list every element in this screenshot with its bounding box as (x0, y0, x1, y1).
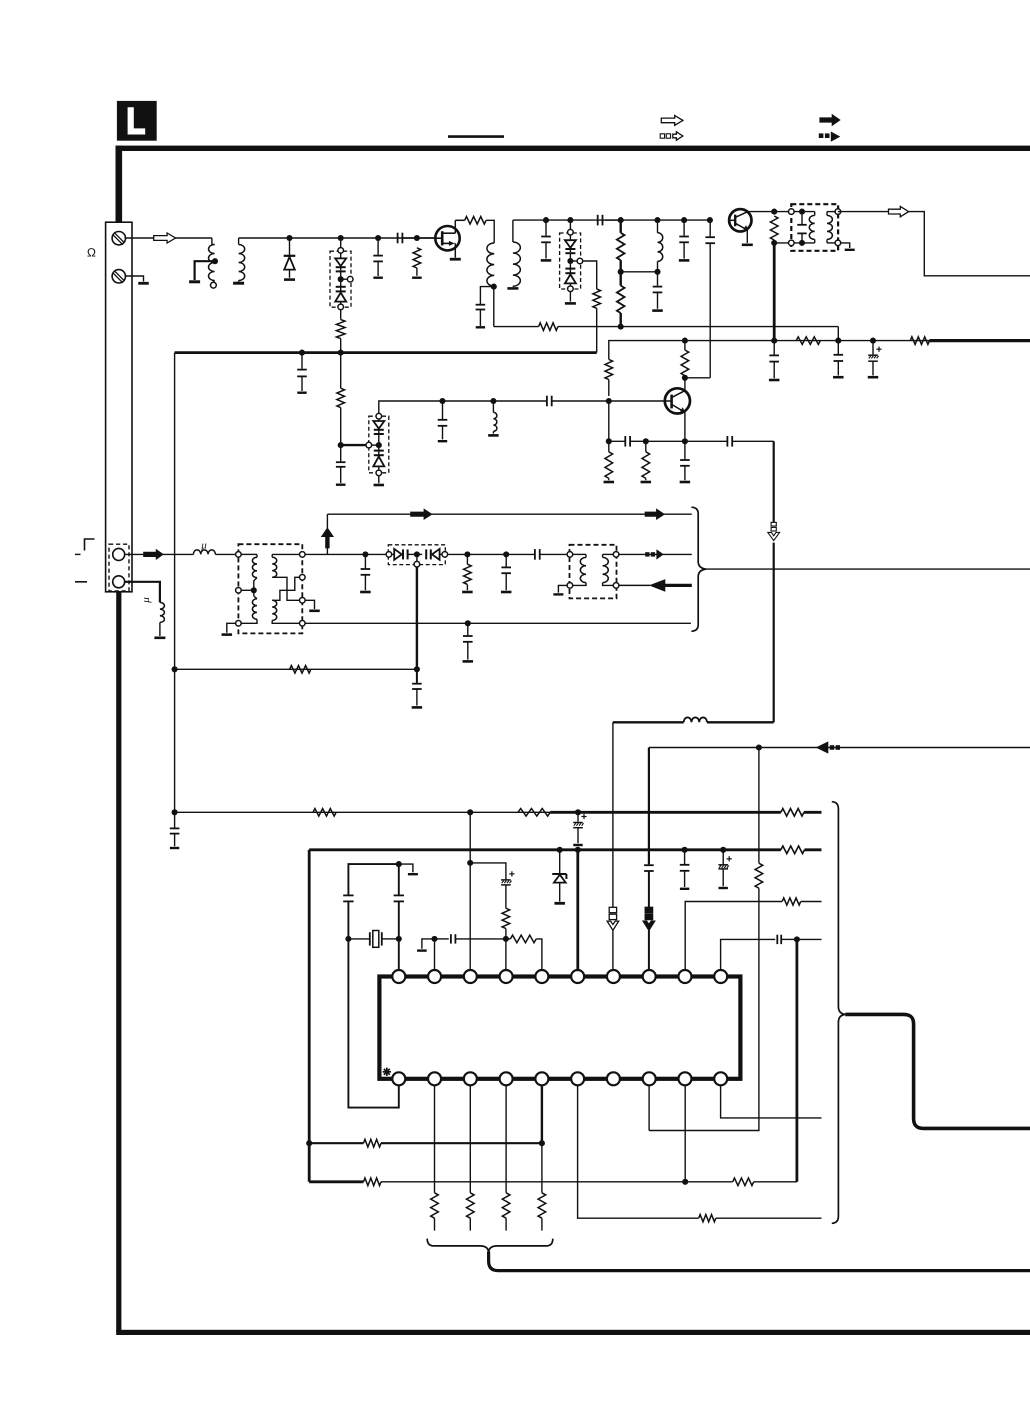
node pin15 leg (539, 1140, 545, 1146)
T3 terminal TL (789, 209, 795, 215)
T4 primary upper coil (241, 553, 257, 555)
wire D2 to R (340, 310, 342, 320)
node rail1 pin3 branch (467, 809, 473, 815)
node zener on rail2 (557, 847, 563, 853)
brace right group (832, 802, 846, 1224)
ground C24 (463, 660, 474, 663)
capacitor C9 (683, 220, 685, 236)
wire pin13 leg (469, 1085, 471, 1193)
resistor R29 (699, 1215, 716, 1222)
T1 primary bottom open end (213, 281, 214, 283)
ground R12 (641, 481, 652, 484)
FM input filled arrow (143, 549, 164, 560)
series capacitor C16 (726, 436, 728, 447)
wire pin3 riser (469, 812, 471, 970)
resistor R5 (617, 233, 625, 260)
wire R12 (645, 441, 647, 452)
ground crystal top (399, 864, 413, 872)
wire FM2 to L5 (125, 582, 160, 603)
wire FM input (125, 553, 194, 555)
resistor R15 (466, 554, 468, 564)
varactor D4 bottom terminal (376, 470, 382, 476)
ground C21 (360, 591, 371, 594)
wire rail end (595, 219, 621, 221)
T3 primary coil (809, 215, 814, 239)
wire pin16 leg (578, 1085, 699, 1218)
ground T3 secondary (841, 243, 850, 248)
node C24 (465, 620, 471, 626)
ground D1 (284, 278, 295, 281)
node crystal ground stub (396, 861, 402, 867)
varactor D2b symbol (340, 282, 342, 287)
wire R10 top (684, 341, 686, 350)
wire pin9 leg (685, 902, 782, 971)
capacitor C20 electrolytic (872, 341, 874, 355)
wire pin1 riser (398, 942, 400, 971)
node C13 on base line (439, 398, 445, 404)
bar C11 (297, 392, 306, 394)
transformer T2 secondary coil (513, 242, 520, 286)
bar C29 (680, 888, 689, 890)
resistor R7 (770, 216, 778, 240)
node cap C3 on rail (375, 235, 381, 241)
series capacitor C15 (624, 436, 626, 447)
pin 15 (535, 1072, 548, 1085)
wire crystal left loop (348, 942, 398, 1108)
wire D4 to osc base line (379, 401, 443, 413)
pin 17 (607, 1072, 620, 1085)
ground C19 (833, 376, 844, 379)
wire pin8 drop 2 (648, 930, 650, 970)
wire collector to feedback cap (685, 377, 710, 379)
wire IC net bottom (309, 1180, 363, 1183)
node supply C18 (771, 338, 777, 344)
T3 tuning capacitor (801, 212, 803, 224)
wire Q3 collector (684, 378, 686, 391)
header filled arrow with squares (819, 133, 824, 138)
ground T4 BL (227, 623, 236, 633)
ground ZD1 (554, 902, 565, 905)
T3 inner top wire (794, 211, 815, 213)
varactor D2 side terminal (343, 278, 347, 280)
wire pin10 leg (721, 939, 776, 970)
series capacitor C7 mixer rail (597, 215, 599, 226)
wire T5 out (619, 553, 692, 555)
diode D1 (289, 238, 291, 255)
transistor Q2 (729, 209, 751, 231)
wire rail to Q1 gate (403, 237, 436, 239)
pin 2 (428, 970, 441, 983)
T4 terminal TL (236, 552, 242, 558)
varactor D4a symbol (378, 419, 380, 421)
wire AFC line from right (649, 747, 1030, 749)
wire R20 to pin5 (536, 939, 542, 970)
wire feedback drop 2 (773, 543, 775, 723)
inductor L5 (160, 602, 165, 622)
resistor R3 drain (465, 217, 486, 225)
inductor L2 (658, 233, 663, 262)
varactor D4 side terminal (366, 442, 372, 448)
resistor R32 rail1 stub (781, 809, 804, 817)
wire FM feed thick (664, 584, 692, 587)
FM terminal 2 (113, 576, 125, 588)
inductor L4 (193, 550, 215, 555)
wire pin10 AGC drop thick (796, 939, 799, 1181)
wire R3 to T2 (486, 220, 494, 243)
wire right group output thick (845, 1014, 1030, 1128)
wire AM input (125, 237, 212, 239)
wire VT riser (326, 514, 328, 554)
varactor D3b symbol (569, 264, 571, 269)
wire pin18 riser 2 (649, 888, 759, 1130)
node pin4 top (503, 936, 509, 942)
crystal X1 (351, 938, 370, 940)
ground R15 (462, 591, 473, 594)
T5 terminal BR (613, 583, 619, 589)
node pin19 bottom (682, 1179, 688, 1185)
T3 terminal TR (835, 209, 841, 215)
pin 5 (535, 970, 548, 983)
wire R5 node to L2 node (621, 271, 658, 273)
node pin6 supply (575, 847, 581, 853)
bar C27 (573, 844, 582, 846)
resistor R25 legs group (431, 1193, 439, 1218)
resistor R13 supply (796, 337, 820, 345)
wire Q1 drain (455, 219, 464, 221)
wire pin7 drop 2 (612, 930, 614, 970)
resistor R11 (605, 452, 613, 479)
wire T2 bottom to C5 (480, 287, 493, 304)
bar C12 (336, 484, 346, 486)
FM terminal dashed box (109, 544, 129, 591)
wire FM line D5-R15 (448, 553, 535, 555)
wire Q3 emitter (684, 412, 686, 442)
ground D3 (569, 292, 571, 302)
T4 primary lower coil (253, 590, 255, 596)
T3 inner bottom wire (794, 242, 815, 244)
wire node to T3 primary top (774, 211, 791, 213)
varactor D5 center node (414, 551, 420, 557)
wire resistor group output (489, 1252, 1030, 1271)
varactor D2a symbol (340, 253, 342, 258)
wire pin15 leg 2 (541, 1143, 543, 1193)
VT line filled arrow 2 (645, 508, 665, 520)
pin 9 (678, 970, 691, 983)
transformer T4 dashed box (238, 544, 302, 633)
node R15 (464, 551, 470, 557)
resistor R9 (605, 359, 613, 379)
wire emitter rail (646, 440, 685, 442)
resistor R6 (617, 286, 625, 313)
wire supply B+ thick (930, 339, 1030, 342)
brace FM group (691, 507, 706, 631)
wire L4 to T4 (215, 553, 235, 555)
node R5/R6 (618, 269, 624, 275)
resistor R21 (502, 908, 510, 928)
capacitor C25 (416, 669, 418, 683)
FM antenna glyph upper (85, 539, 95, 551)
node emitter rail left (606, 438, 612, 444)
transformer T1 secondary coil (239, 245, 245, 281)
wire Q2 collector (748, 211, 775, 213)
T3 terminal BL (789, 240, 795, 246)
resistor R31 osc rail (539, 323, 558, 331)
T4 secondary cross wire A (272, 577, 299, 600)
FM feed left arrow (649, 579, 665, 592)
node supply C20 (870, 338, 876, 344)
capacitor C17 (684, 441, 686, 459)
T4 terminal TR (300, 552, 306, 558)
ground Q1 source (450, 258, 461, 261)
T4 terminal R3 (300, 598, 306, 604)
wire T4 TR to mixer line (305, 553, 364, 555)
varactor D2 center node (338, 276, 344, 282)
series capacitor C10 in feedback line (709, 220, 711, 236)
wire D3 tap to R4 (583, 261, 597, 289)
wire AM rail (239, 237, 437, 239)
AFC left arrow with squares (816, 741, 829, 753)
node pin10 branch (794, 936, 800, 942)
header open arrow (661, 116, 683, 126)
ground C22 (501, 591, 512, 594)
header underline segment (448, 135, 504, 138)
node C6 on mixer rail (543, 217, 549, 223)
pin 7 (607, 970, 620, 983)
series capacitor C23 (534, 549, 536, 560)
pin 16 (571, 1072, 584, 1085)
node pin3 line (467, 860, 473, 866)
varactor D3 center node (567, 258, 573, 264)
brace resistor group (427, 1239, 553, 1253)
wire C34 to pin3 line (470, 863, 506, 880)
zener diode ZD1 (559, 850, 561, 874)
header open arrow with squares (660, 134, 664, 138)
T5 terminal TR (613, 552, 619, 558)
wire crystal top (348, 864, 398, 895)
node AFC branch (756, 744, 762, 750)
wire T5 BR feed (619, 584, 650, 586)
wire bottom line right (381, 1181, 685, 1183)
inductor L3 (492, 401, 494, 412)
ground D4 (378, 476, 380, 484)
IC U1 index mark (383, 1071, 391, 1073)
wire AGC to R8 (340, 353, 342, 389)
ground screw2 (138, 282, 149, 285)
corner osc supply (609, 341, 933, 360)
node AGC C11 (299, 350, 305, 356)
varactor D3 bottom terminal (568, 286, 574, 292)
wire pin2 riser (434, 942, 436, 971)
ground C17 (680, 481, 691, 484)
capacitor C13 (442, 401, 444, 419)
node D4 feed (338, 442, 344, 448)
pin 14 (500, 1072, 513, 1085)
ground C6 (541, 259, 552, 262)
ground C18 (769, 379, 780, 382)
T5 terminal TL (567, 552, 573, 558)
wire C35 to node (781, 938, 795, 940)
node L2 on rail (654, 217, 660, 223)
T4 terminal BR (300, 621, 306, 627)
node R5 chain on rail (618, 217, 624, 223)
node osc rail R6 (618, 324, 624, 330)
wire C16 to drop (732, 440, 774, 442)
node FM line C21 (362, 551, 368, 557)
pin 10 (714, 970, 727, 983)
node rail1 left end (172, 809, 178, 815)
wire rail1 (VREF) (175, 811, 551, 813)
FM terminal 1 (113, 548, 125, 560)
T5 secondary coil (603, 553, 614, 555)
node rail2 C29 (682, 847, 688, 853)
T1 primary tap dot (212, 258, 218, 264)
resistor R27 (502, 1193, 510, 1218)
varactor D3a symbol (569, 235, 571, 240)
pin 11 (392, 1072, 405, 1085)
T4 secondary upper coil (272, 553, 299, 555)
pin 12 (428, 1072, 441, 1085)
resistor R12 (642, 452, 650, 479)
varactor D4b symbol (378, 448, 380, 451)
wire AGC thick rail (y=353) (175, 351, 597, 354)
bar C26 (170, 847, 179, 849)
resistor R14 supply (910, 337, 929, 345)
connector filled pin8 (645, 907, 652, 912)
transformer T1 primary coil (209, 245, 215, 281)
wire rail1 thick (550, 811, 781, 814)
capacitor C30 electrolytic (722, 850, 724, 864)
resistor R8 (337, 388, 345, 407)
node IC net left (306, 1140, 312, 1146)
resistor R28 (538, 1193, 546, 1218)
wire left VT vertical (174, 353, 176, 813)
wire C23 to T5 (540, 553, 570, 555)
header filled arrow (819, 114, 840, 126)
series capacitor C14 (546, 396, 548, 407)
AM terminal screw 2 (112, 270, 125, 283)
wire osc rail (y=327) (494, 326, 539, 328)
node Q3 collector (682, 375, 688, 381)
capacitor C5 (476, 304, 486, 306)
wire R6 to osc rail (620, 272, 622, 286)
wire rail C7 to Q2 base node (621, 219, 710, 221)
resistor R4 (593, 289, 601, 308)
wire pin15 leg thick (541, 1085, 543, 1143)
node R2 on rail (414, 235, 420, 241)
wire node to D4 side (341, 444, 366, 446)
wire rail to D2 (340, 238, 342, 248)
resistor R23 (364, 1178, 382, 1186)
wire FM group output (706, 568, 1030, 570)
ground T4 R3 (305, 600, 314, 609)
node pin2 top (431, 936, 437, 942)
varactor D2 bottom terminal (338, 304, 344, 310)
capacitor C3 (377, 238, 379, 255)
wire VT rail (175, 668, 417, 670)
wire R8 to D4 node (340, 408, 342, 446)
T4 terminal ML (236, 588, 242, 594)
node rail1 C27 (575, 809, 581, 815)
capacitor C26 (174, 812, 176, 827)
wire feedback horizontal (707, 721, 774, 723)
bar C3 (373, 277, 382, 279)
terminal block (106, 222, 132, 592)
varactor D2 top terminal (338, 248, 344, 254)
node C9 on rail (681, 217, 687, 223)
node crystal left (345, 936, 351, 942)
transistor Q3 (665, 388, 690, 413)
resistor R-D2 (336, 320, 345, 339)
node supply/collector R10 (682, 338, 688, 344)
IC U1 body (379, 977, 740, 1079)
T5 primary coil (573, 553, 586, 555)
capacitor C11 (301, 353, 303, 369)
wire rail to D3 (569, 220, 571, 229)
pin 1 (392, 970, 405, 983)
wire R5 leads (620, 220, 622, 233)
capacitor C24 (467, 623, 469, 635)
T4 secondary lower coil (272, 600, 277, 620)
pin 6 (571, 970, 584, 983)
capacitor C27 electrolytic (577, 812, 579, 821)
wire feedback to pin7 corner (613, 721, 684, 723)
series capacitor C28 (644, 864, 654, 866)
pin 4 (500, 970, 513, 983)
series capacitor C35 (776, 935, 778, 944)
frame: left top thick feed wire (116, 146, 123, 223)
capacitor C19 (837, 341, 839, 354)
wire IC net left (308, 850, 311, 1182)
node C22 (503, 551, 509, 557)
varactor D5b symbol (420, 553, 423, 555)
wire pin19 leg (684, 1085, 686, 1182)
capacitor C22 (505, 554, 507, 566)
pin 8 (643, 970, 656, 983)
frame: left bottom thick wire (116, 591, 121, 1332)
bar R2 (416, 268, 418, 276)
T4 primary tap node (251, 587, 257, 593)
svg-text:μ: μ (140, 597, 152, 604)
node L3 on base line (490, 398, 496, 404)
frame: top border (116, 146, 1030, 151)
wire R11 (608, 441, 610, 452)
pin 13 (464, 1072, 477, 1085)
VT up arrow (321, 527, 334, 548)
resistor R22 (364, 1139, 382, 1147)
wire pin20 leg (721, 1085, 822, 1118)
ground Q2 emitter (746, 230, 748, 243)
wire pin7 drop (612, 722, 614, 907)
capacitor C34 electrolytic (505, 890, 507, 908)
transistor Q1 (FET) (435, 226, 459, 250)
node T3 bottom (771, 240, 777, 246)
capacitor C18 (773, 341, 775, 355)
capacitor C12 (340, 445, 342, 461)
node L2 bottom (654, 269, 660, 275)
wire T2 primary bottom to osc rail (493, 287, 495, 327)
varactor D3 side terminal (573, 260, 577, 262)
AM input open arrow (154, 233, 176, 243)
node AGC varactor chain (338, 350, 344, 356)
wire pin8 drop (648, 748, 650, 865)
capacitor C21 (364, 554, 366, 568)
node rail2 C30 (720, 847, 726, 853)
wire D5 tap drop (416, 567, 418, 669)
resistor R10 (681, 350, 689, 376)
varactor D5a symbol (392, 553, 394, 555)
resistor R30 (782, 898, 801, 905)
node crystal right (396, 936, 402, 942)
